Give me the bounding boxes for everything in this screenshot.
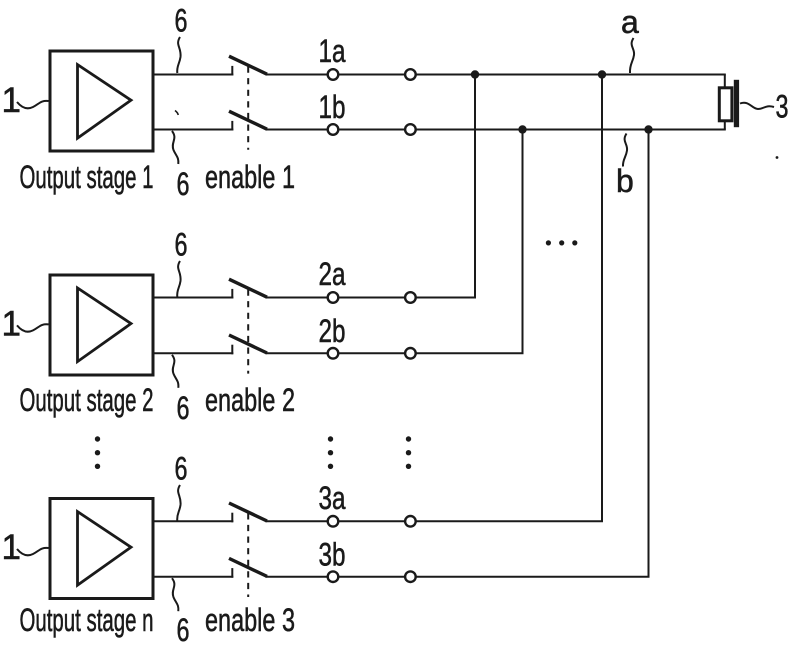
- junction bus b / stage 2: [518, 125, 526, 133]
- svg-text:1b: 1b: [319, 89, 346, 125]
- svg-text:3b: 3b: [319, 536, 346, 572]
- svg-text:6: 6: [177, 390, 190, 426]
- vertical ellipsis middle: [328, 436, 333, 469]
- switch 3a blade: [229, 503, 267, 521]
- switch 3b blade: [229, 558, 267, 576]
- switch 2a blade: [229, 279, 267, 297]
- svg-text:6: 6: [175, 3, 188, 39]
- bus a stub down to load: [724, 75, 726, 89]
- svg-text:6: 6: [177, 612, 190, 645]
- switch 2a fixed contact tick: [231, 289, 233, 299]
- svg-text:2a: 2a: [319, 256, 346, 292]
- node 2a open circle (left): [328, 292, 339, 303]
- wire stage 2 upper (box to switch): [155, 297, 234, 299]
- leader squiggle 6 bottom stage 1: [172, 131, 178, 164]
- vertical wire node 2b to bus b: [522, 130, 524, 354]
- svg-text:b: b: [616, 163, 634, 199]
- leader squiggle 6 top stage 2: [177, 261, 180, 297]
- leader squiggle input stage 3: [17, 548, 49, 556]
- enable 3 dashed control line: [247, 513, 249, 597]
- switch 1a fixed contact tick: [231, 66, 233, 76]
- node 2b open circle (right): [405, 348, 416, 359]
- switch 2b fixed contact tick: [231, 345, 233, 355]
- svg-text:enable 3: enable 3: [205, 602, 295, 638]
- svg-text:6: 6: [175, 227, 188, 263]
- leader squiggle input stage 2: [17, 324, 49, 332]
- wire stage 3 lower (box to switch): [155, 576, 234, 578]
- svg-text:Output stage 2: Output stage 2: [20, 382, 154, 418]
- svg-text:1a: 1a: [319, 33, 346, 69]
- svg-text:6: 6: [177, 166, 190, 202]
- node 1b open circle (left): [328, 124, 339, 135]
- leader squiggle load 3: [740, 103, 774, 109]
- svg-text:1: 1: [2, 304, 21, 343]
- leader squiggle 6 bottom stage 2: [172, 355, 178, 388]
- enable 1 dashed control line: [247, 67, 249, 150]
- node 3a open circle (right): [405, 516, 416, 527]
- leader squiggle 6 top stage 3: [177, 485, 180, 521]
- svg-text:3a: 3a: [319, 480, 346, 516]
- load 3 transducer body: [719, 88, 732, 121]
- wire 3b horizontal: [266, 576, 650, 578]
- node 1b open circle (right): [405, 124, 416, 135]
- svg-text:a: a: [621, 4, 639, 40]
- vertical wire node 3b to bus b: [648, 130, 650, 577]
- wire 1b / bus b: [266, 129, 726, 131]
- vertical ellipsis left: [95, 436, 100, 469]
- svg-text:enable 2: enable 2: [205, 382, 295, 418]
- vertical ellipsis right: [406, 436, 411, 469]
- switch 1b blade: [229, 111, 267, 129]
- node 1a open circle (left): [328, 69, 339, 80]
- output stage 3 box: [50, 499, 153, 599]
- wire stage 3 upper (box to switch): [155, 520, 234, 522]
- wire stage 2 lower (box to switch): [155, 352, 234, 354]
- junction bus b / stage n: [644, 125, 652, 133]
- wire 1a / bus a: [266, 74, 726, 76]
- switch 3a fixed contact tick: [231, 513, 233, 523]
- node 2a open circle (right): [405, 292, 416, 303]
- node 3b open circle (left): [328, 571, 339, 582]
- horizontal ellipsis between stage columns: [546, 240, 578, 245]
- wire 3a horizontal: [266, 520, 604, 522]
- wire stage 1 lower (box to switch): [155, 129, 234, 131]
- svg-text:6: 6: [175, 451, 188, 487]
- switch 3b fixed contact tick: [231, 568, 233, 578]
- output stage 2 box: [50, 275, 153, 375]
- svg-text:1: 1: [2, 528, 21, 567]
- output stage 1 box: [50, 51, 153, 151]
- scan speck right margin: [776, 156, 779, 159]
- leader squiggle 6 top stage 1: [177, 37, 180, 73]
- node 2b open circle (left): [328, 348, 339, 359]
- svg-text:Output stage 1: Output stage 1: [20, 159, 154, 195]
- scan speck near stage 1 wires: [175, 111, 178, 116]
- leader squiggle input stage 1: [17, 101, 49, 109]
- svg-text:3: 3: [776, 89, 789, 125]
- wire 2a horizontal: [266, 297, 477, 299]
- vertical wire node 3a to bus a: [601, 75, 603, 522]
- vertical wire node 2a to bus a: [474, 75, 476, 298]
- bus b stub up to load: [724, 121, 726, 130]
- wire 2b horizontal: [266, 352, 524, 354]
- leader squiggle 6 bottom stage 3: [172, 578, 178, 611]
- svg-text:Output stage n: Output stage n: [20, 602, 154, 638]
- amplifier triangle stage 2: [78, 288, 132, 362]
- wire stage 1 upper (box to switch): [155, 74, 234, 76]
- load 3 thick plate: [734, 80, 739, 127]
- node 3b open circle (right): [405, 571, 416, 582]
- node 1a open circle (right): [405, 69, 416, 80]
- leader squiggle bus b: [623, 134, 627, 167]
- enable 2 dashed control line: [247, 290, 249, 374]
- svg-text:enable 1: enable 1: [205, 159, 295, 195]
- node 3a open circle (left): [328, 516, 339, 527]
- junction bus a / stage 2: [471, 70, 479, 78]
- leader squiggle bus a: [630, 38, 634, 73]
- amplifier triangle stage 1: [78, 65, 132, 139]
- junction bus a / stage n: [598, 70, 606, 78]
- switch 1b fixed contact tick: [231, 121, 233, 131]
- svg-text:1: 1: [2, 81, 21, 120]
- switch 2b blade: [229, 335, 267, 353]
- svg-text:2b: 2b: [319, 313, 346, 349]
- switch 1a blade: [229, 56, 267, 74]
- amplifier triangle stage 3: [78, 512, 132, 586]
